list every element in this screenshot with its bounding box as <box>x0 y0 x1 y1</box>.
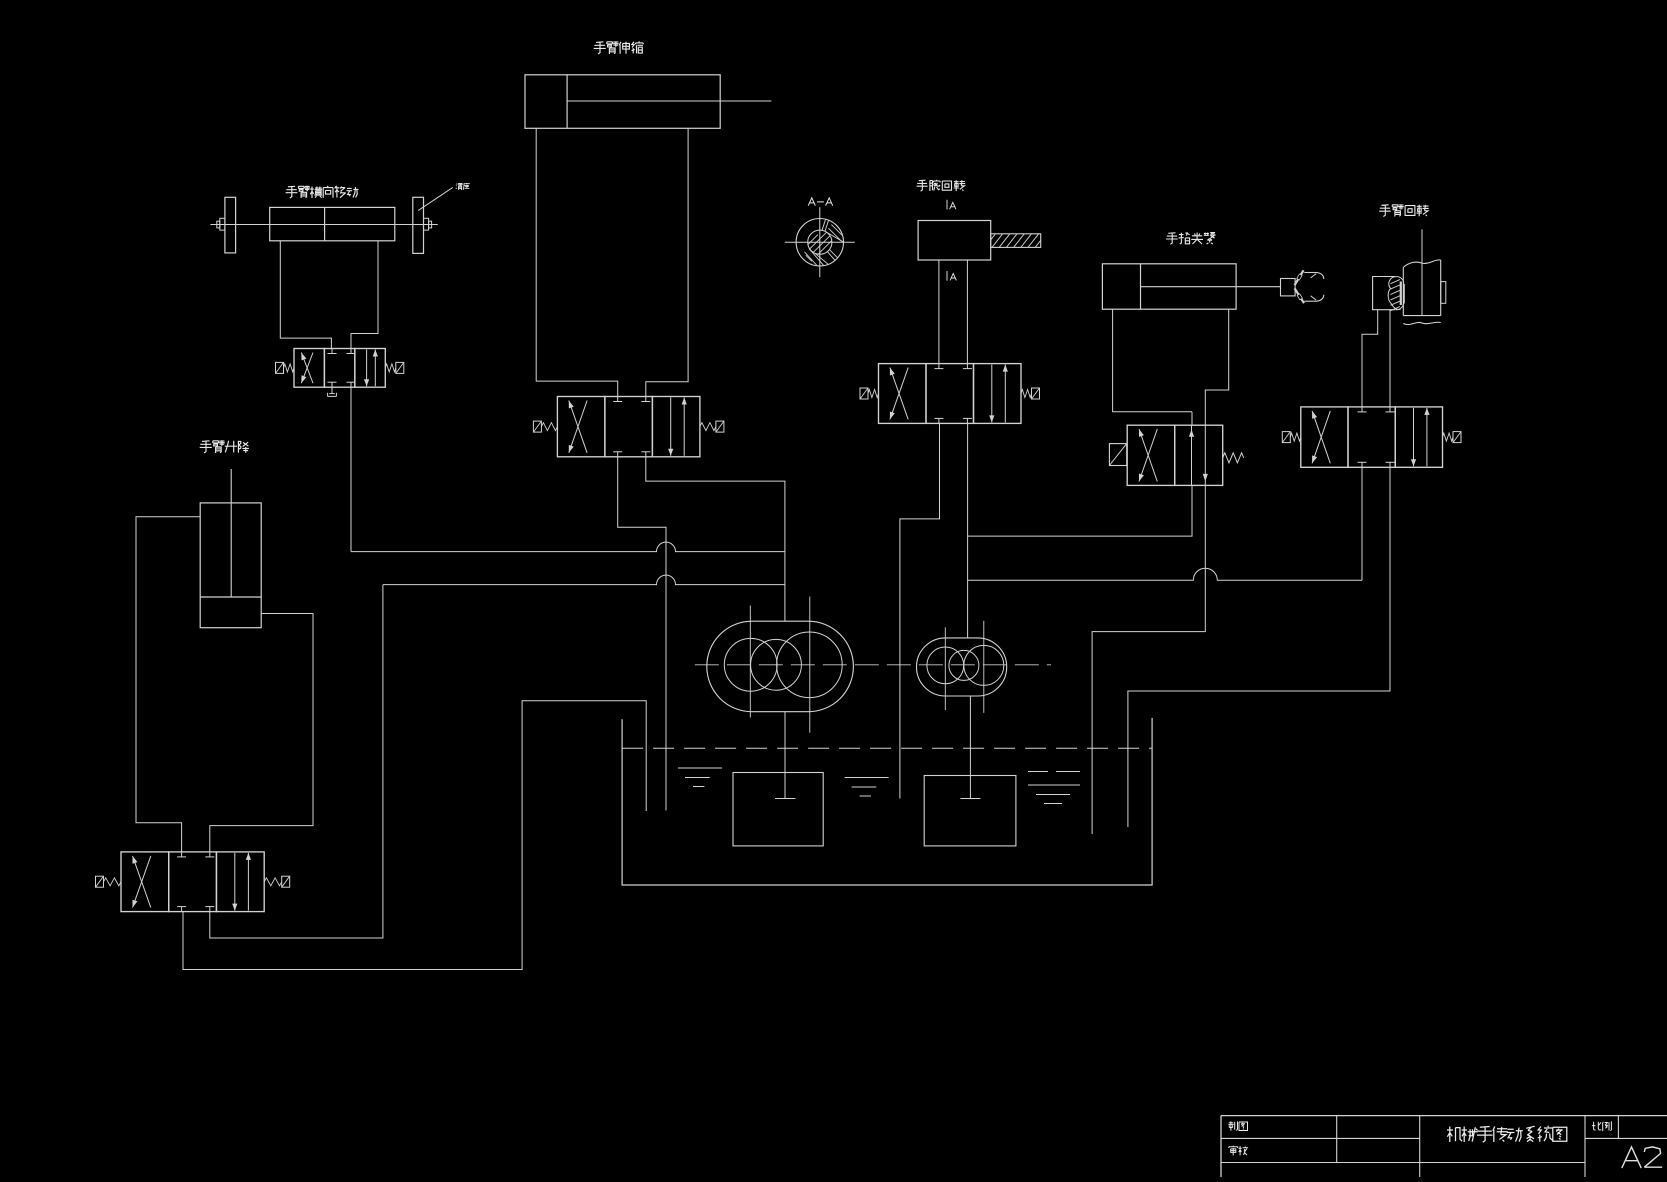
wire V4 through-line up to C5 body <box>1191 412 1193 426</box>
label: arm extend 手臂伸缩 <box>594 41 644 54</box>
C5 gripper <box>1281 270 1324 303</box>
C4 splined rod (hatched) <box>974 229 1057 252</box>
title block frame <box>1221 1116 1667 1177</box>
C1 axle <box>210 224 437 226</box>
wire C5 right side to V4 <box>1205 309 1228 425</box>
cylinder C2 (arm extend) body <box>525 75 720 129</box>
C1 right nut <box>424 218 432 230</box>
valve V4 (finger clamp) 4/2 valve <box>1109 425 1243 485</box>
wire C1 left port to V1 <box>280 241 331 349</box>
section view A-A circle <box>785 207 855 277</box>
valve V2 (arm extend) 4/3 solenoid valve <box>533 397 724 457</box>
wire C3 lower port to V6 <box>210 614 313 852</box>
label: slide seat 滑座 <box>456 183 470 190</box>
C5 piston rod <box>1141 286 1281 288</box>
level mark 2 <box>845 778 889 797</box>
label: finger clamp 手指夹紧 <box>1166 232 1216 244</box>
cylinder C4 (wrist rotate) body <box>918 221 991 261</box>
label: arm lateral move 手臂横向移动 <box>286 186 359 198</box>
wire V4 tank port to tank <box>1092 485 1205 834</box>
wire V3 tank port to tank <box>900 423 940 798</box>
wire V1 P port down to pressure line 1 <box>350 387 352 551</box>
pressure line 2 (pump1 to V6) with hop <box>383 575 785 585</box>
label: wrist rotate 手腕回转 <box>917 180 966 192</box>
C1 right wheel <box>413 197 424 253</box>
wire C2 left port to V2 <box>536 128 618 396</box>
wire C4 stem right <box>966 260 968 364</box>
level mark 1 <box>678 768 722 787</box>
P1 suction line + strainer T <box>775 712 796 799</box>
actuator C6 (arm rotate) <box>1373 229 1446 324</box>
wire C6 left stem to V5 <box>1362 310 1378 407</box>
wire V6 P riser <box>210 585 383 938</box>
cylinder C5 (finger clamp) body <box>1102 264 1236 309</box>
valve V6 (arm lift) 4/3 solenoid valve <box>96 852 290 912</box>
wire V2 P port to pump1 riser <box>646 457 785 621</box>
wire C3 upper port to V6 <box>136 517 200 852</box>
C1 left nut <box>217 218 225 230</box>
label 比例 <box>1592 1121 1612 1131</box>
C2 piston rod <box>567 100 771 102</box>
tank outline <box>622 718 1152 885</box>
tank fluid level (dashed) <box>622 747 1152 749</box>
wire C4 stem left <box>938 260 940 364</box>
V1 drain tank symbol <box>328 387 337 396</box>
valve V3 (wrist rotate) 4/3 solenoid valve <box>860 364 1040 424</box>
branch pump2 to V5 P (with hop) <box>968 568 1362 580</box>
C3 piston rod <box>230 469 232 597</box>
title text 机械手传动系统图 <box>1447 1126 1567 1143</box>
pump P2 (gear pump) <box>917 621 1007 713</box>
wire V6 tank port to tank <box>183 701 646 970</box>
sheet size A2 <box>1622 1147 1662 1168</box>
label 审核 <box>1229 1146 1248 1156</box>
C4 section marker A (bottom) <box>947 271 956 281</box>
C4 section marker A (top) <box>947 200 956 210</box>
strainer box under P1 <box>733 773 823 846</box>
pressure line 1 (pump1 to V1/V2) with hop <box>351 542 785 552</box>
valve V1 (lateral move) 4/3 solenoid valve <box>276 349 404 388</box>
valve V5 (arm rotate) 4/3 solenoid valve <box>1282 407 1461 467</box>
wire C2 right port to V2 <box>646 128 688 396</box>
wire C6 right stem to V5 <box>1389 310 1391 407</box>
wire V5 P riser <box>1361 467 1363 580</box>
wire C5 body outline to V4 <box>1113 309 1192 412</box>
leader line to slide seat <box>418 187 453 210</box>
cylinder C3 (arm lift) body <box>200 503 261 628</box>
branch pump2 to V4 P <box>968 485 1192 536</box>
pump P1 (gear pump) <box>707 597 854 733</box>
P2 suction line + strainer T <box>960 696 980 799</box>
strainer box under P2 <box>924 776 1016 846</box>
label: section A-A <box>808 198 833 206</box>
wire C1 right port to V1 <box>351 241 378 349</box>
label: arm lift 手臂升降 <box>200 440 249 453</box>
cylinder C1 (arm lateral move) body <box>270 207 395 240</box>
wire V2 tank port to tank (with jump-overs) <box>618 457 666 811</box>
wire V5 tank port to tank <box>1128 467 1390 827</box>
level mark 3 <box>1028 772 1080 804</box>
label: arm rotate 手臂回转 <box>1379 204 1429 216</box>
label 制图 <box>1228 1121 1247 1130</box>
wire pump2 riser to V3 P port <box>967 423 969 638</box>
C1 left wheel <box>225 197 236 253</box>
pump centerline <box>695 664 1051 666</box>
